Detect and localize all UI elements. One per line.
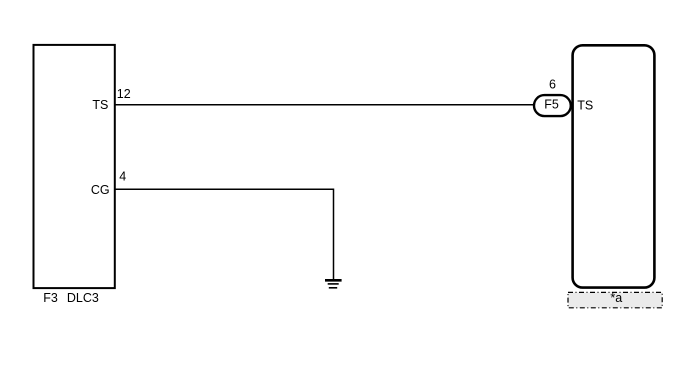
- ground: [325, 280, 342, 288]
- connector F3 DLC3 (left box): [34, 45, 115, 288]
- note box *a: [568, 292, 662, 307]
- svg-text:CG: CG: [91, 183, 110, 197]
- svg-text:6: 6: [549, 78, 556, 92]
- svg-text:F5: F5: [544, 97, 559, 111]
- svg-text:TS: TS: [577, 98, 593, 112]
- svg-text:TS: TS: [92, 98, 108, 112]
- ECM body (right rounded box): [573, 45, 655, 287]
- svg-text:*a: *a: [610, 291, 622, 305]
- connector F5 oval: [534, 95, 571, 116]
- wire CG: DLC3 pin 4 to ground: [115, 189, 334, 280]
- svg-text:DLC3: DLC3: [67, 291, 99, 305]
- svg-text:12: 12: [117, 87, 131, 101]
- svg-text:F3: F3: [43, 291, 58, 305]
- wire TS: DLC3 pin 12 to F5: [115, 104, 535, 106]
- svg-text:4: 4: [119, 169, 126, 183]
